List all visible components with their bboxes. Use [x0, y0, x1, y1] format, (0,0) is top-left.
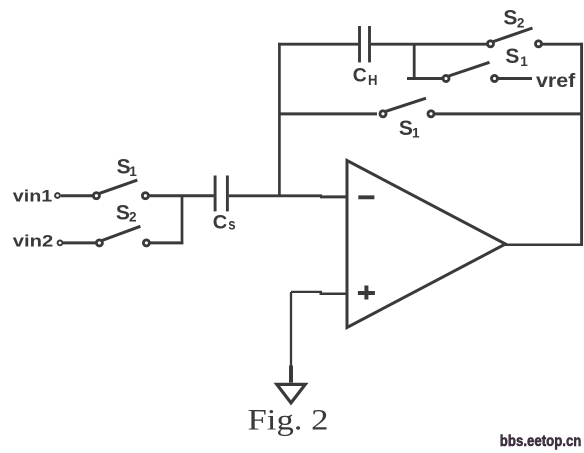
wire ground vertical thin [290, 292, 292, 366]
svg-text:vin1: vin1 [13, 186, 53, 205]
switch S1 middle right contact [428, 111, 434, 117]
op-amp U1 [347, 161, 506, 328]
label S1 vin1 [117, 154, 138, 179]
wire non-inverting input right part [320, 293, 348, 296]
switch S2 vin2 left contact [96, 240, 102, 246]
label S2 top [503, 6, 525, 31]
switch S2 top arm [494, 28, 533, 42]
svg-text:s: s [228, 217, 235, 234]
op-amp plus sign [358, 286, 375, 300]
label S2 vin2 [116, 201, 137, 225]
svg-text:C: C [353, 64, 367, 86]
svg-text:Fig. 2: Fig. 2 [248, 405, 329, 437]
svg-text:bbs.eetop.cn: bbs.eetop.cn [500, 433, 582, 450]
label S1 middle [399, 116, 420, 141]
svg-text:2: 2 [129, 210, 137, 225]
switch S2 vin2 arm [102, 226, 140, 240]
wire stub to S1 vref [407, 77, 443, 80]
wire S1 to CS [149, 194, 214, 197]
label vin1 [13, 186, 53, 205]
caption Fig. 2 [248, 405, 329, 437]
svg-text:S: S [116, 201, 130, 225]
capacitor CS [215, 176, 227, 212]
svg-text:vref: vref [536, 71, 576, 92]
wire S1 to vref [498, 77, 532, 80]
svg-text:S: S [399, 116, 413, 140]
switch S2 vin2 right contact [143, 240, 149, 246]
svg-text:1: 1 [520, 54, 528, 69]
svg-text:S: S [505, 44, 519, 68]
wire middle reset right segment [435, 112, 582, 115]
label CH [353, 64, 378, 89]
terminal vin1 [55, 193, 60, 198]
wire vin2 horizontal to junction [150, 241, 183, 244]
terminal vin2 [58, 241, 63, 246]
wire vin2 vertical junction [181, 196, 184, 244]
watermark bbs.eetop.cn [500, 433, 582, 450]
switch S1 vin1 left contact [93, 193, 99, 199]
op-amp minus sign [358, 195, 374, 199]
switch S2 top right contact [536, 41, 542, 47]
capacitor CH [360, 26, 370, 62]
wire CS to op-amp inverting input [229, 194, 322, 197]
switch S1 vin1 right contact [142, 193, 148, 199]
wire middle reset left segment [279, 112, 377, 115]
switch S1 vref left contact [443, 76, 449, 82]
svg-text:C: C [213, 211, 228, 233]
wire top feedback right segment [371, 43, 487, 46]
switch S2 top left contact [488, 41, 494, 47]
svg-text:2: 2 [517, 15, 525, 30]
wire vin2 to switch [62, 241, 96, 244]
label CS [213, 211, 236, 233]
wire junction vertical to S1 vref [413, 44, 416, 78]
svg-text:S: S [503, 6, 517, 30]
wire feedback vertical from inverting node [278, 43, 281, 196]
wire vin1 to switch [61, 194, 93, 197]
wire op-amp output [505, 243, 582, 246]
switch S1 vref arm [449, 62, 490, 76]
label vref [536, 71, 576, 92]
ground [277, 384, 306, 403]
label vin2 [13, 231, 54, 250]
label S1 top [505, 44, 528, 69]
switch S1 vref right contact [492, 76, 498, 82]
svg-text:1: 1 [412, 126, 420, 141]
switch S1 vin1 arm [99, 180, 137, 193]
switch S1 middle left contact [380, 111, 386, 117]
svg-text:vin2: vin2 [13, 231, 54, 250]
wire right vertical output to feedback [580, 43, 583, 246]
wire ground vertical thick [289, 366, 293, 383]
wire inverting input right part [320, 195, 347, 198]
wire non-inverting input [291, 291, 322, 293]
svg-text:H: H [368, 72, 378, 89]
switch S1 middle arm [386, 98, 426, 111]
wire S2 to right corner [542, 43, 581, 46]
svg-text:1: 1 [129, 164, 137, 179]
wire top feedback left segment [278, 43, 358, 46]
